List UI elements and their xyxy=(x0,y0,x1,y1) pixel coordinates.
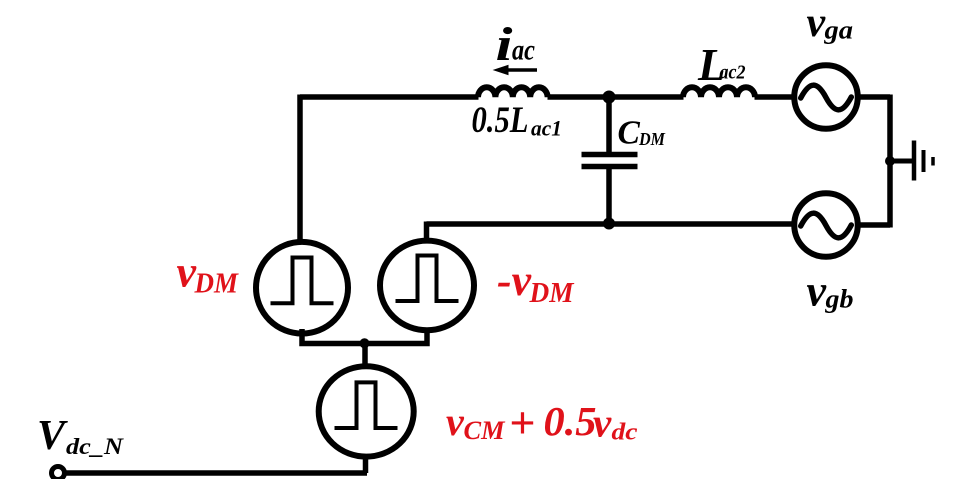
wire vgb to right vertical xyxy=(858,222,890,228)
wire vga to right vertical xyxy=(858,94,890,100)
pulse source -vDM xyxy=(380,241,474,331)
svg-text:+: + xyxy=(509,397,535,448)
node junction below vDM sources xyxy=(360,338,370,348)
svg-text:ga: ga xyxy=(823,16,853,45)
svg-text:C: C xyxy=(618,115,641,152)
svg-text:-v: -v xyxy=(497,256,531,305)
wire top rail middle xyxy=(548,94,684,100)
label CDM xyxy=(618,115,666,152)
svg-text:0.5: 0.5 xyxy=(544,398,597,444)
label iac xyxy=(496,18,536,71)
AC source vga xyxy=(794,65,858,129)
wire vCM bottom stub xyxy=(363,455,369,473)
svg-text:ac: ac xyxy=(512,34,535,67)
node junction top of CDM xyxy=(603,91,616,104)
label 0.5Lac1 xyxy=(472,100,563,141)
svg-text:ac2: ac2 xyxy=(720,62,746,84)
label vgb xyxy=(807,267,854,316)
svg-text:CM: CM xyxy=(464,416,506,445)
label vCM + 0.5vdc xyxy=(446,397,638,448)
svg-text:DM: DM xyxy=(529,277,575,309)
pulse source vDM xyxy=(256,242,348,334)
wire right vertical xyxy=(887,95,893,228)
svg-text:v: v xyxy=(807,0,827,46)
svg-text:i: i xyxy=(496,18,514,71)
label vga xyxy=(807,0,854,46)
inductor Lac2 xyxy=(683,87,755,97)
pulse source vCM xyxy=(319,366,414,456)
wire junction to vCM source xyxy=(362,344,368,369)
svg-text:v: v xyxy=(177,248,197,297)
wire top stub of -vDM source xyxy=(424,222,430,244)
ground symbol xyxy=(914,141,933,181)
svg-text:v: v xyxy=(446,399,465,444)
label Lac2 xyxy=(697,40,746,90)
svg-text:dc: dc xyxy=(612,419,638,445)
inductor 0.5Lac1 xyxy=(478,87,548,97)
wire bottom middle rail xyxy=(427,221,794,227)
capacitor CDM xyxy=(582,155,638,167)
label vDM xyxy=(177,248,240,300)
wire CDM bottom lead xyxy=(606,168,612,224)
node junction bottom of CDM xyxy=(603,218,615,230)
svg-text:DM: DM xyxy=(194,267,240,299)
svg-text:v: v xyxy=(807,267,827,316)
wire top rail right xyxy=(755,94,794,100)
label -vDM xyxy=(497,256,575,309)
label Vdc_N xyxy=(37,413,125,459)
svg-text:gb: gb xyxy=(824,285,853,314)
svg-text:DM: DM xyxy=(638,129,666,149)
svg-text:V: V xyxy=(37,413,68,459)
svg-text:ac1: ac1 xyxy=(531,115,562,140)
terminal Vdc_N xyxy=(52,467,65,479)
node junction ground stub xyxy=(885,156,895,166)
svg-text:0.5L: 0.5L xyxy=(472,100,529,141)
current arrow iac xyxy=(493,65,537,75)
wire left vertical to vDM source xyxy=(297,95,303,243)
svg-text:v: v xyxy=(593,400,612,446)
wire ground stub xyxy=(890,159,913,164)
wire bottom rail to Vdc_N xyxy=(58,470,367,476)
wire joining vDM and -vDM bottoms xyxy=(302,328,427,344)
wire CDM top lead xyxy=(606,97,612,153)
svg-text:dc_N: dc_N xyxy=(66,434,125,459)
wire top rail xyxy=(300,94,479,100)
AC source vgb xyxy=(794,193,858,257)
